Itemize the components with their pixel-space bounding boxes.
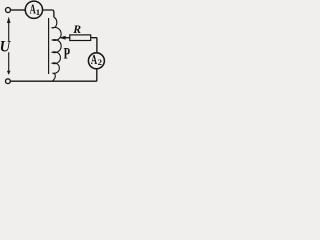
svg-text:1: 1 bbox=[36, 7, 40, 17]
svg-text:R: R bbox=[72, 23, 81, 36]
svg-text:P: P bbox=[64, 44, 70, 62]
svg-text:U: U bbox=[0, 39, 11, 55]
svg-text:2: 2 bbox=[98, 57, 103, 67]
